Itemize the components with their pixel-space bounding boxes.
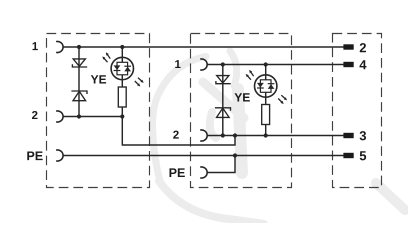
LED emission arrows lower-right (left LED): [134, 77, 145, 88]
zener diode V1 (left, cathode down): [72, 59, 87, 67]
wire pin2-left: [63, 116, 122, 118]
terminal label 2: [360, 43, 366, 52]
wire pin2-middle to terminal 3: [207, 135, 345, 137]
wire pin1-middle to terminal 4: [207, 64, 345, 66]
connector housing X1 (left dashed box): [47, 34, 150, 188]
pin label PE (left connector): [27, 152, 42, 161]
wire LED to resistor middle: [265, 92, 267, 104]
terminal 3: [343, 133, 353, 138]
wire suppressor branch middle: [222, 65, 224, 136]
LED emission arrows upper-left (middle LED): [245, 69, 255, 81]
LED YE left (bidirectional): [111, 57, 133, 79]
connector housing X2 (middle dashed box): [191, 34, 292, 188]
terminal label 5: [360, 151, 366, 160]
junction dots middle: [221, 62, 268, 157]
wire pin2-left jog to node at middle pin2 net: [122, 117, 235, 146]
wire resistor to pin2 middle: [265, 125, 267, 136]
wire suppressor branch left: [78, 47, 80, 117]
terminal 2: [343, 44, 353, 49]
resistor R1 left: [118, 87, 126, 107]
pin label 2 (left connector): [32, 111, 38, 119]
wire LED branch top left: [121, 47, 123, 62]
pin label 1 (left connector): [33, 42, 38, 50]
terminal 4: [343, 62, 353, 67]
resistor R2 middle: [262, 105, 270, 125]
socket contact pin 1 left: [56, 41, 63, 52]
junction dots left: [77, 45, 125, 119]
socket contact PE middle: [200, 167, 207, 178]
zener diode V4 (middle, cathode up): [215, 108, 231, 118]
socket contact pin 1 middle: [200, 59, 207, 70]
socket contact pin 2 middle: [200, 130, 207, 141]
socket contact pin 2 left: [56, 111, 63, 122]
terminal 5: [343, 153, 353, 158]
pin label PE (middle connector): [169, 168, 184, 177]
wire PE-middle jog to PE net: [207, 156, 235, 173]
pin label 2 (middle connector): [173, 131, 179, 139]
terminal box (right dashed box): [333, 34, 382, 188]
terminal label 4: [359, 60, 366, 69]
pin label 1 (middle connector): [175, 60, 180, 68]
wire LED to resistor left: [121, 75, 123, 87]
zener diode V3 (middle, cathode down): [216, 76, 231, 84]
zener diode V2 (left, cathode up): [71, 91, 87, 101]
wire PE-left to terminal 5: [63, 155, 345, 157]
terminal label 3: [360, 131, 366, 140]
LED emission arrows upper-left (left LED): [101, 51, 111, 63]
wire pin1-left to terminal 2: [63, 46, 345, 48]
LED emission arrows lower-right (middle LED): [277, 94, 288, 105]
wire resistor to pin2 left: [121, 107, 123, 117]
label YE left: [91, 75, 106, 83]
label YE middle: [235, 93, 250, 101]
watermark logo: [153, 51, 406, 224]
wire LED branch top middle: [265, 65, 267, 80]
socket contact PE left: [56, 150, 63, 161]
LED YE middle (bidirectional): [255, 75, 277, 97]
